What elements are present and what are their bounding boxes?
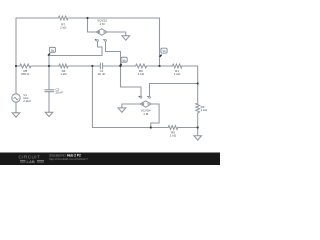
svg-text:20 nF: 20 nF <box>55 91 63 95</box>
node rail tap junction <box>197 82 199 84</box>
svg-text:20 nF: 20 nF <box>98 72 106 76</box>
ground VCVS2 <box>122 36 130 40</box>
svg-text:1 kΩ: 1 kΩ <box>201 108 208 112</box>
wire bottom horizontal <box>92 66 197 128</box>
wire main horizontal <box>16 65 198 67</box>
svg-text:1 kΩ: 1 kΩ <box>170 134 177 138</box>
wire VCVS2 to ground <box>107 32 126 36</box>
wire node A vertical <box>48 56 50 90</box>
wire left vertical <box>15 18 17 94</box>
wire C2 to ground <box>48 92 50 113</box>
capacitor C1 <box>100 63 102 69</box>
VCVS2 input terminals <box>97 40 151 99</box>
node flag Vo <box>160 48 167 57</box>
ground V1 <box>12 113 20 117</box>
wire VCVS4 to ground <box>122 104 140 108</box>
VCVS4 polarity <box>142 103 144 105</box>
node right-mid junction <box>158 65 160 67</box>
svg-text:LAB: LAB <box>27 159 35 164</box>
wire node A to VCVS2 plus input <box>49 41 102 55</box>
wire top horizontal <box>16 17 160 19</box>
wire V1 to ground <box>15 102 17 112</box>
capacitor C2 <box>45 90 54 92</box>
VCVS4 input polarity marks <box>138 96 140 98</box>
svg-text:1 kΩ: 1 kΩ <box>60 25 67 29</box>
resistor R3 <box>196 103 200 113</box>
node top junction <box>86 17 88 19</box>
node C1 left junction <box>91 65 93 67</box>
node flag Va <box>48 47 56 55</box>
svg-text:1 M: 1 M <box>143 112 149 116</box>
node rail bottom junction <box>197 126 199 128</box>
svg-text:2 kHz: 2 kHz <box>23 99 31 103</box>
svg-text:1 kΩ: 1 kΩ <box>174 72 181 76</box>
wire VCVS2 minus input to node B <box>106 41 121 66</box>
svg-text:990 Ω: 990 Ω <box>21 72 30 76</box>
svg-text:http://circuitlab.com/c6s6ux7/: http://circuitlab.com/c6s6ux7/ <box>49 157 88 161</box>
wire VCVS4 minus input to right rail <box>150 84 198 97</box>
svg-text:Vb: Vb <box>123 58 127 62</box>
svg-text:4 kΩ: 4 kΩ <box>138 72 145 76</box>
resistor R5 <box>168 126 178 130</box>
resistor R6 <box>136 64 147 68</box>
resistor R4 <box>59 64 68 68</box>
node bottom junction <box>150 126 152 128</box>
wire VCVS4 output to bottom <box>151 104 159 128</box>
svg-text:1 kΩ: 1 kΩ <box>60 72 67 76</box>
CircuitLab logo <box>19 154 45 164</box>
op-amp output VCVS2 <box>96 29 107 35</box>
wire top to VCVS2 <box>88 18 97 32</box>
watermark bar <box>0 153 220 165</box>
node main-left <box>15 65 17 67</box>
VCVS2 polarity <box>98 31 100 33</box>
VCVS2 input polarity marks <box>95 39 97 41</box>
voltage source V1 <box>12 94 20 102</box>
VCVS4 diamond <box>140 101 151 107</box>
wire right rail vertical <box>197 66 199 135</box>
wire right vertical from top <box>159 18 161 66</box>
svg-text:1 M: 1 M <box>99 22 105 26</box>
component labels <box>21 19 181 138</box>
wire node B down to VCVS4 plus input <box>121 66 142 96</box>
ground right rail <box>194 136 202 140</box>
node B junction <box>119 65 121 67</box>
ground C2 <box>45 112 53 116</box>
node A junction <box>48 65 50 67</box>
resistor R7 <box>58 16 68 20</box>
resistor R1 <box>172 64 182 68</box>
resistor R8 <box>20 64 31 68</box>
node flag Vb <box>120 57 128 66</box>
ground VCVS4 <box>118 108 126 112</box>
